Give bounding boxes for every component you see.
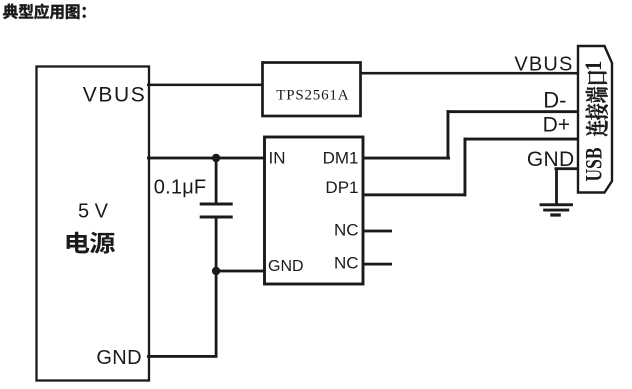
IC U2 box (DM1/DP1/NC/GND) — [265, 137, 364, 284]
wire NC stub (pin 2) — [363, 263, 392, 266]
svg-text:0.1μF: 0.1μF — [154, 177, 207, 199]
ground symbol — [540, 203, 574, 216]
junction node (cap top / IN wire) — [212, 154, 220, 162]
wire VBUS: TPS2561A to USB connector — [361, 72, 579, 75]
svg-text:GND: GND — [268, 258, 304, 275]
svg-text:1: 1 — [581, 61, 607, 71]
title text 典型应用图： — [3, 4, 86, 20]
capacitor C1 0.1uF — [200, 158, 233, 272]
svg-text:D+: D+ — [543, 114, 570, 137]
wire DP1 to D+ net — [363, 138, 578, 197]
svg-text:VBUS: VBUS — [514, 54, 573, 76]
svg-text:NC: NC — [334, 220, 359, 239]
junction node (cap bottom / GND wire) — [212, 267, 220, 275]
power supply box 5V 电源 — [37, 67, 150, 381]
svg-text:GND: GND — [527, 148, 575, 171]
svg-text:NC: NC — [334, 253, 359, 272]
wire IN: power box to IC U2 — [147, 157, 265, 160]
wire: cap bottom junction down to power GND wire — [215, 271, 218, 356]
wire GND: USB connector to ground — [555, 167, 579, 204]
svg-text:DP1: DP1 — [325, 178, 358, 197]
svg-text:GND: GND — [96, 347, 142, 369]
svg-text:IN: IN — [269, 149, 286, 168]
svg-text:5 V: 5 V — [78, 201, 109, 223]
connector J1 USB连接端口1 — [578, 46, 612, 193]
svg-text:DM1: DM1 — [323, 149, 359, 168]
IC U1 TPS2561A box — [263, 63, 361, 117]
wire DM1 to D- net — [363, 110, 578, 159]
label 电源 — [67, 232, 115, 254]
svg-text:TPS2561A: TPS2561A — [276, 87, 349, 103]
wire: cap bottom junction to IC GND pin — [216, 270, 265, 273]
svg-text:D-: D- — [543, 88, 566, 113]
svg-text:USB: USB — [582, 147, 607, 181]
wire VBUS: power box to TPS2561A — [147, 84, 263, 87]
wire GND: power box to cap junction column — [147, 355, 218, 358]
svg-text:VBUS: VBUS — [83, 84, 147, 107]
wire NC stub (pin 1) — [363, 230, 392, 233]
